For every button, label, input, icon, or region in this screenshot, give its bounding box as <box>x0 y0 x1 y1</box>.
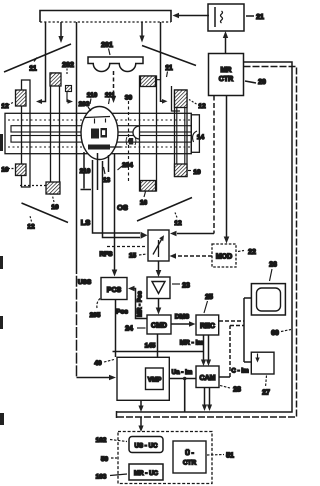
wire: CAM bottom to bus (double) <box>204 388 206 407</box>
wire: MR CTR dashed to box15 <box>213 96 215 234</box>
svg-text:11: 11 <box>165 65 173 72</box>
label 28 <box>220 386 230 389</box>
beam dotted centerline upper <box>8 119 190 121</box>
wire: long line from bar x=76 down <box>76 22 78 263</box>
wire: REC down to CAM (MR-im, double) <box>203 335 205 361</box>
label 23 <box>172 283 180 285</box>
svg-text:11: 11 <box>29 66 37 73</box>
svg-text:CMD: CMD <box>151 323 167 330</box>
mirror 11 right (diagonal) <box>142 46 196 66</box>
box 22 MOD <box>212 244 236 267</box>
monitor 26 <box>251 284 285 315</box>
beam band outer <box>5 113 191 153</box>
node axis dashed vertical x=128.5 <box>128 101 130 182</box>
implant top plate line <box>85 117 110 118</box>
implant 110 (dark) <box>91 129 99 139</box>
pointer diagonal bottom-left <box>22 203 69 223</box>
wire: MOD dashed to box15 <box>176 255 212 257</box>
svg-text:MOD: MOD <box>216 254 232 261</box>
wire RFS: band to PCS <box>114 154 116 270</box>
wire: box21 to top bar with arrow <box>178 15 209 17</box>
svg-text:23: 23 <box>182 283 190 290</box>
svg-text:51: 51 <box>226 453 234 460</box>
svg-text:REC: REC <box>200 323 215 330</box>
wire: bar down x=160.5 elbow right arrow <box>161 22 164 101</box>
box 51 CTR <box>173 441 206 473</box>
wire: box40 bottom to bus <box>140 400 142 407</box>
svg-text:10: 10 <box>51 204 59 211</box>
svg-text:12: 12 <box>27 224 35 231</box>
svg-text:CTR: CTR <box>219 76 233 83</box>
svg-text:12: 12 <box>198 103 206 110</box>
box 40 (video unit) <box>117 357 169 400</box>
box 28 CAM <box>196 366 219 388</box>
box 162 US-UC <box>129 437 163 453</box>
beam band right end element <box>191 115 199 153</box>
amp 23 (triangle) <box>147 277 170 299</box>
top mounting bar <box>40 11 171 23</box>
wire Ua-im: box40 to CAM with node <box>169 378 196 380</box>
svg-text:Ü -: Ü - <box>185 448 194 457</box>
wire: amp to CMD <box>158 299 160 310</box>
lens (col4 bottom, hatched) <box>175 164 188 177</box>
box 20 MR CTR <box>209 54 244 96</box>
lens column 3 (central) rails <box>140 76 157 191</box>
small element a <box>66 86 72 92</box>
svg-text:10: 10 <box>1 167 9 174</box>
svg-text:RFS: RFS <box>100 251 114 258</box>
wire: bus to box50 <box>140 418 142 428</box>
svg-text:25: 25 <box>205 294 213 301</box>
beam channel bar upper <box>11 126 191 132</box>
bus left end cap <box>116 411 118 418</box>
svg-text:CAM: CAM <box>200 375 216 382</box>
wire: eye to box15 lower <box>103 161 141 238</box>
svg-text:14: 14 <box>197 134 205 141</box>
svg-text:50: 50 <box>101 456 109 463</box>
svg-text:28: 28 <box>233 387 241 394</box>
scan smudge marks left edge <box>0 134 3 151</box>
mirror 11 left (diagonal) <box>4 44 71 72</box>
svg-text:PCS: PCS <box>107 287 122 294</box>
lens column 1 (leftmost) rails <box>22 80 31 187</box>
wire: USS into box 40 <box>77 377 111 379</box>
svg-text:USS: USS <box>78 279 92 286</box>
svg-text:MR - im: MR - im <box>180 340 204 347</box>
wire: eye to box15 upper <box>93 160 141 233</box>
dotted connector col1-col2 bottoms <box>20 185 49 187</box>
arrow glyph in box 27 <box>257 354 259 360</box>
label 21 <box>246 15 254 17</box>
wire: bar arrow down at x=142 onto right mirror <box>141 22 143 37</box>
optical axis dashed from 201 with arrow <box>113 71 115 97</box>
svg-text:21: 21 <box>256 14 264 21</box>
svg-text:13: 13 <box>103 177 111 184</box>
svg-text:MR: MR <box>221 67 232 74</box>
bus: MR CTR right, down right side, bottom bar (double line) <box>117 62 293 412</box>
svg-text:20: 20 <box>258 79 266 86</box>
svg-text:Ua - im: Ua - im <box>172 369 193 376</box>
wire: MR CTR to MOD <box>226 96 228 239</box>
wire 210 from eye with T end <box>83 152 85 189</box>
lens (col3 top, hatched) <box>141 76 156 87</box>
wire C-im: CAM right up to monitor/27 <box>219 376 230 378</box>
svg-text:30: 30 <box>125 95 133 102</box>
svg-text:201: 201 <box>101 42 113 49</box>
lens (col3 bottom, hatched) <box>141 181 156 192</box>
svg-text:26: 26 <box>269 262 277 269</box>
beam dotted centerline lower <box>8 146 190 148</box>
box VMP <box>146 368 164 390</box>
svg-text:22: 22 <box>248 249 256 256</box>
svg-text:MR - Pos: MR - Pos <box>138 291 144 317</box>
eye ball 30 <box>81 107 118 160</box>
lens 10 (col1 bottom, hatched) <box>16 164 27 176</box>
label 22 <box>238 251 244 252</box>
wire: third lead from eye <box>108 155 110 172</box>
lens (col4 top, hatched) <box>175 90 188 108</box>
svg-text:LS: LS <box>81 218 91 227</box>
svg-text:210: 210 <box>80 168 91 175</box>
wire: MR-Pos from CMD to PCS <box>134 289 147 319</box>
svg-text:40: 40 <box>94 360 102 367</box>
svg-text:16: 16 <box>140 200 148 207</box>
wire: MR CTR to box 21 with up arrow <box>225 36 227 54</box>
wire DMS: CMD to REC <box>171 323 190 325</box>
svg-text:Pos: Pos <box>116 309 128 316</box>
svg-text:10: 10 <box>193 169 201 176</box>
implant base bar (dark) <box>88 145 110 150</box>
box 15 (scan mirror) <box>148 230 169 261</box>
svg-text:CTR: CTR <box>183 460 197 467</box>
box 21 internal symbol <box>214 7 216 27</box>
wire: box15 to amp 23 <box>158 261 160 272</box>
svg-text:MR - UC: MR - UC <box>134 470 159 477</box>
box 24 CMD <box>147 315 171 334</box>
svg-text:12: 12 <box>1 103 9 110</box>
eyepiece element 201 <box>88 57 143 72</box>
lens column 2 rails <box>51 73 60 194</box>
svg-text:VMP: VMP <box>148 377 161 384</box>
svg-text:C - im: C - im <box>231 368 249 375</box>
wire: bar down x=47 elbow left arrow <box>40 22 46 102</box>
L bracket element right of col3 <box>172 86 181 111</box>
svg-text:145: 145 <box>145 343 156 350</box>
svg-text:US - UC: US - UC <box>134 443 158 450</box>
wire: small element down then right arrow <box>67 92 69 102</box>
node drop to bus <box>184 379 186 413</box>
svg-text:162: 162 <box>96 437 107 444</box>
svg-text:110: 110 <box>87 92 98 99</box>
svg-text:202: 202 <box>62 62 74 69</box>
box 25 REC <box>196 315 219 335</box>
svg-text:12: 12 <box>174 220 182 227</box>
wire: fourth lead from eye <box>97 153 99 190</box>
svg-text:205: 205 <box>90 312 101 319</box>
box 27 (grabber) <box>251 352 274 374</box>
wire: REC-CAM link horizontal <box>113 351 204 353</box>
dashed feed into box15 left <box>107 246 146 248</box>
svg-text:OS: OS <box>117 203 128 212</box>
lens 12 (col1 top, hatched) <box>16 90 27 106</box>
lens 202 (col2 top, hatched) <box>50 73 61 86</box>
svg-text:DMS: DMS <box>175 314 190 321</box>
box 50 (control rack) <box>118 432 212 484</box>
wire 145: CMD down to VMP <box>157 334 159 363</box>
wire: bar arrow down at x=60 onto left mirror <box>60 22 62 38</box>
svg-text:111: 111 <box>105 92 116 99</box>
lens column 4 rails <box>175 90 188 177</box>
wire Pos: PCS down into box40 <box>115 300 117 358</box>
box PCS <box>101 278 127 300</box>
svg-text:204: 204 <box>122 162 133 169</box>
beam channel bar lower <box>11 136 191 143</box>
lens bump on column 3 left rail <box>133 126 140 139</box>
label 20 <box>245 81 256 83</box>
svg-text:24: 24 <box>125 326 133 333</box>
svg-text:15: 15 <box>129 253 137 260</box>
lens (col2 bottom, hatched) <box>46 182 60 194</box>
svg-text:60: 60 <box>271 330 279 337</box>
prism theta mark <box>129 138 133 145</box>
box 163 MR-UC <box>129 464 163 480</box>
connector col3 top to x=160.5 line <box>157 79 161 81</box>
implant 111 (dark with window) <box>101 128 108 138</box>
svg-text:163: 163 <box>96 474 107 481</box>
svg-text:27: 27 <box>262 390 270 397</box>
box 21 (drive unit) <box>208 4 244 31</box>
